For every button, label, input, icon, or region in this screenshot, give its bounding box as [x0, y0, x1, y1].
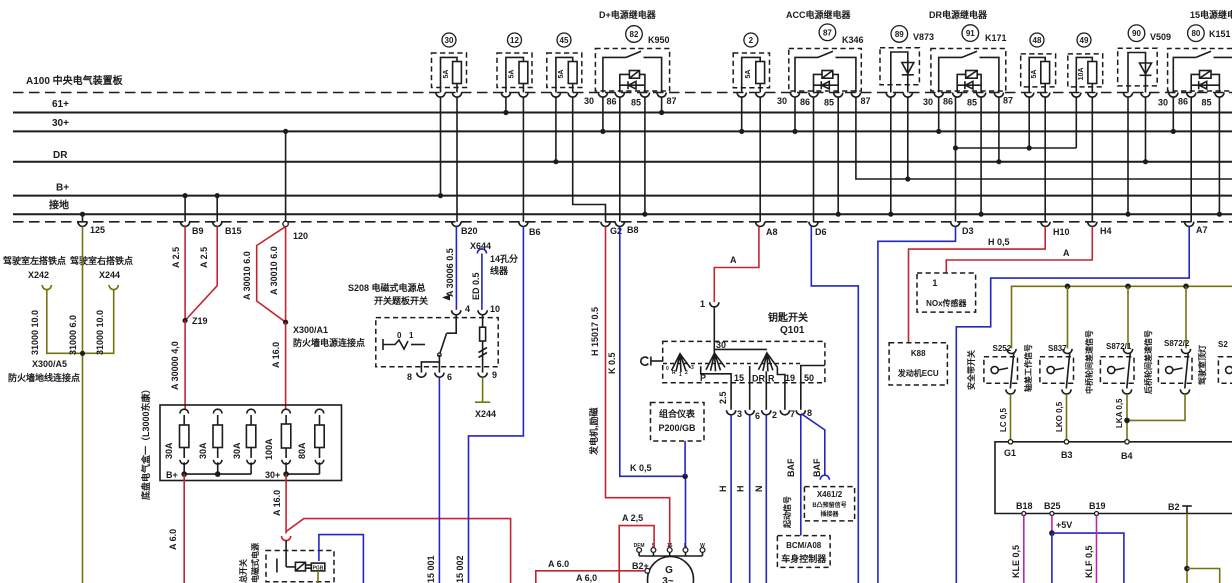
wire bus B+ [13, 195, 1232, 197]
svg-text:6: 6 [447, 372, 452, 382]
node dot K151-30/30+ [1171, 129, 1176, 134]
svg-text:2: 2 [749, 36, 754, 45]
wire B25 blue jog right down [1052, 533, 1124, 583]
svg-text:B25: B25 [1044, 501, 1061, 511]
component S208 board switch [376, 304, 500, 382]
node dot K171-86/aux [953, 145, 958, 150]
svg-text:5A: 5A [443, 70, 450, 79]
node dot B+ [181, 471, 187, 477]
fuse 100A [282, 409, 291, 413]
svg-text:电磁式电源: 电磁式电源 [250, 543, 260, 583]
wire pin4 into box [447, 315, 457, 333]
svg-text:K171: K171 [985, 33, 1007, 43]
component instrument cluster P200/GB [651, 403, 705, 442]
rotor fan left [672, 354, 691, 372]
svg-text:H: H [718, 486, 728, 493]
terminal 15 [667, 548, 672, 553]
svg-text:2: 2 [685, 370, 688, 376]
wire dashed bus top A100 [13, 92, 1232, 94]
wire X644 blue down to S208 pin10 [481, 254, 483, 310]
wire pin8 link [421, 362, 439, 373]
wire K346-85 to ground [837, 97, 839, 215]
wire K950-87 to 61+ [661, 97, 663, 113]
wire bus 61+ [13, 112, 1232, 114]
node dot X300/A5 junction [80, 351, 85, 356]
svg-text:K 0,5: K 0,5 [630, 463, 652, 473]
wire F30-left to B+ [440, 97, 442, 196]
svg-text:总开关: 总开关 [238, 559, 248, 583]
node keyswitch pin1 cup [710, 302, 719, 307]
svg-text:K151: K151 [1209, 29, 1231, 39]
wire pivot to pin6 [438, 355, 440, 373]
svg-text:起动信号: 起动信号 [782, 496, 792, 529]
svg-text:N: N [754, 486, 764, 493]
wire pin1 into switch [713, 307, 715, 353]
fuse F30 5A [432, 33, 467, 97]
svg-text:DR: DR [752, 374, 765, 384]
wire terminal B15 stub [216, 196, 218, 222]
svg-text:底盘电气盒一（L3000东康）: 底盘电气盒一（L3000东康） [140, 384, 151, 500]
wire B25 blue down [1051, 533, 1053, 583]
fuse F49 10A [1068, 33, 1103, 97]
svg-text:X242: X242 [28, 270, 49, 280]
svg-text:LKA 0,5: LKA 0,5 [1115, 398, 1124, 428]
svg-text:6: 6 [755, 411, 760, 421]
svg-text:30: 30 [1158, 98, 1168, 108]
wire B25 magenta stub [1051, 516, 1053, 534]
svg-text:接地: 接地 [49, 199, 69, 212]
wire terminal 120 stub [285, 131, 287, 221]
svg-text:BAF: BAF [812, 458, 822, 477]
svg-text:BCM/A08: BCM/A08 [786, 541, 822, 550]
svg-text:8: 8 [807, 408, 812, 418]
svg-text:82: 82 [630, 30, 639, 39]
svg-text:30: 30 [445, 36, 454, 45]
svg-text:15 002: 15 002 [455, 555, 465, 583]
wire K171-87 to DR [998, 97, 1000, 162]
node terminal B15 cup [213, 222, 222, 227]
svg-text:B2+: B2+ [632, 561, 649, 571]
wire 125 olive down [82, 226, 84, 583]
wire bus ground [13, 213, 1232, 215]
wire B2 olive branch right [1187, 569, 1220, 583]
wire coil lead [286, 566, 295, 568]
wire B6 blue down jog 15002 [469, 226, 524, 583]
node dot V873R/aux [905, 176, 910, 181]
svg-text:LC 0,5: LC 0,5 [999, 407, 1008, 432]
svg-text:5A: 5A [1031, 70, 1038, 79]
svg-text:30A: 30A [164, 442, 174, 459]
svg-text:1: 1 [932, 278, 937, 288]
wire F45-right jog to terminal G2 [573, 97, 606, 222]
svg-text:D+电源继电器: D+电源继电器 [599, 9, 657, 20]
node dot +5V junction [1049, 530, 1055, 536]
svg-text:100A: 100A [264, 438, 274, 460]
node dot K950-85/gnd [642, 212, 647, 217]
node terminal A8 cup [756, 222, 765, 227]
wire F30-right to terminal B20 [456, 97, 458, 222]
svg-text:R: R [672, 370, 676, 376]
svg-text:5A: 5A [508, 70, 515, 79]
component K88 engine ECU box [889, 343, 947, 385]
svg-text:8: 8 [407, 372, 412, 382]
wire A7 blue down double jog [956, 226, 1189, 583]
node dot 120/30+ [283, 129, 288, 134]
component generator G [632, 543, 705, 583]
svg-text:A: A [1063, 248, 1070, 258]
node dot S872 join [1124, 418, 1130, 424]
terminal L [683, 548, 688, 553]
svg-text:B2: B2 [1168, 502, 1180, 512]
svg-text:31000 10.0: 31000 10.0 [30, 310, 40, 355]
svg-text:A 30000 4,0: A 30000 4,0 [170, 341, 180, 390]
wire master switch pin [285, 541, 287, 567]
svg-text:K346: K346 [842, 35, 864, 45]
wire cup8 blue diagonal to X461/2 [801, 414, 825, 476]
svg-text:H10: H10 [1053, 227, 1070, 237]
rotor fan middle [706, 353, 725, 371]
svg-text:87: 87 [823, 28, 832, 37]
svg-text:B+: B+ [166, 470, 178, 480]
fuse F12 5A [497, 33, 532, 97]
rotor fan right [758, 353, 777, 371]
svg-text:B9: B9 [192, 226, 204, 236]
wire K346-86 to terminal D6 [813, 97, 815, 222]
wire olive drop S837 [1067, 286, 1069, 348]
node dot 30+ [283, 471, 289, 477]
svg-text:H: H [736, 486, 746, 493]
fuse 30A #2 [213, 409, 222, 413]
relay K171 DR [923, 25, 1013, 108]
svg-text:7: 7 [790, 409, 795, 419]
svg-text:H 0,5: H 0,5 [988, 237, 1010, 247]
svg-text:S2: S2 [1218, 340, 1228, 349]
wire terminal B9 stub [184, 196, 186, 222]
node terminal H4 cup [1088, 222, 1097, 227]
svg-text:W: W [700, 543, 705, 549]
fuse 30A #1 [180, 409, 189, 413]
svg-text:87: 87 [667, 96, 677, 106]
svg-text:ED 0.5: ED 0.5 [471, 272, 481, 300]
node X244 ground cup [109, 285, 118, 290]
svg-text:V873: V873 [913, 32, 934, 42]
svg-text:K 0.5: K 0.5 [607, 352, 617, 374]
fuse 80A [315, 409, 324, 413]
node terminal D6 cup [809, 222, 818, 227]
svg-text:4: 4 [465, 304, 470, 314]
node ks cup 8 [796, 410, 805, 415]
svg-text:A 30010 6.0: A 30010 6.0 [269, 246, 279, 295]
wire K151-30 to 30+ [1172, 97, 1174, 132]
node dot olive bus S872/2 [1183, 284, 1189, 290]
link [306, 564, 312, 566]
svg-text:开关题板开关: 开关题板开关 [374, 295, 428, 306]
wire A8 red to keyswitch pin1 [714, 226, 759, 302]
wire 30+ red down to master switch [285, 474, 287, 533]
component key switch Q101 [641, 307, 825, 410]
svg-text:A: A [730, 255, 737, 265]
svg-text:X461/2: X461/2 [817, 490, 843, 499]
fuse F2 5A [733, 33, 769, 97]
svg-text:B8: B8 [627, 225, 639, 235]
node dot B15/B+ [215, 193, 220, 198]
svg-text:钥匙开关: 钥匙开关 [768, 311, 808, 324]
wire F49-left to aux rail [1075, 97, 1077, 149]
wire F2-left to 30+ [741, 97, 743, 132]
node dot olive bus S837 [1065, 284, 1071, 290]
node dot fuse2 bottom [215, 471, 221, 477]
wire cluster blue stub [684, 441, 686, 476]
wire cup8 blue to BCM [800, 415, 802, 536]
svg-text:A 2.5: A 2.5 [171, 247, 181, 268]
svg-text:S208 电磁式电源总: S208 电磁式电源总 [348, 282, 426, 293]
component vehicle ECU box [995, 440, 1232, 516]
component chassis fuse box [140, 384, 342, 500]
svg-text:DR电源继电器: DR电源继电器 [929, 9, 988, 20]
wire S872/2 olive jog to B4 wire [1127, 394, 1185, 421]
svg-text:50: 50 [804, 373, 814, 383]
svg-text:80A: 80A [297, 442, 307, 459]
svg-text:KLE 0,5: KLE 0,5 [1011, 545, 1021, 578]
svg-text:15: 15 [734, 373, 744, 383]
diode module V509 [1118, 25, 1171, 97]
component switch S252 seat belt [966, 344, 1018, 442]
svg-text:B3: B3 [1061, 450, 1073, 460]
svg-text:驾驶室左搭铁点: 驾驶室左搭铁点 [3, 255, 66, 266]
wire olive drop S872/1 [1127, 286, 1129, 348]
svg-text:87: 87 [861, 96, 871, 106]
wire K346-30 to 30+ [794, 97, 796, 132]
wire 120 red straight branch [285, 227, 287, 323]
svg-text:30A: 30A [198, 442, 208, 459]
wire bus 30+ [13, 130, 1232, 132]
svg-text:V509: V509 [1150, 32, 1171, 42]
wire olive switch bus [1012, 286, 1232, 348]
wire stub to cup7 [777, 367, 785, 410]
relay K950 D+ [584, 26, 677, 108]
node pin4 cup [452, 310, 461, 315]
svg-text:G1: G1 [1004, 448, 1016, 458]
svg-text:ACC电源继电器: ACC电源继电器 [786, 9, 851, 20]
node pin9 cup [478, 373, 487, 378]
wire relay aux rail y147.5 K171-86 to F49 [956, 147, 1077, 149]
wire K171-85 to ground [980, 97, 982, 215]
svg-text:B凸预留信号: B凸预留信号 [812, 501, 846, 509]
label arrow to S208 [442, 295, 450, 301]
node pin8 cup [417, 373, 426, 378]
wire B9 red down to Z19 [184, 226, 186, 320]
node dot K950-30/30+ [600, 129, 605, 134]
svg-text:12: 12 [510, 36, 519, 45]
svg-text:5A: 5A [558, 70, 565, 79]
node X242 ground cup [42, 285, 51, 290]
wire F12-right to terminal B6 [522, 97, 524, 222]
wire F45-left to DR [555, 97, 557, 162]
svg-text:D3: D3 [962, 226, 974, 236]
node dot X300/A1 junction [283, 320, 288, 325]
svg-text:车身控制器: 车身控制器 [781, 553, 827, 564]
wire F49-right to terminal H4 [1091, 97, 1093, 222]
node dot B2 branch [1184, 566, 1190, 572]
svg-text:120: 120 [293, 231, 308, 241]
wire F2-right to terminal A8 [759, 97, 761, 222]
wire B2 olive down [1186, 514, 1188, 583]
terminal S [651, 548, 656, 553]
wire stub to cup3 [701, 366, 731, 410]
pin B19 [1095, 512, 1099, 516]
svg-text:2.5: 2.5 [718, 391, 728, 404]
terminal DFM [637, 548, 642, 553]
wire B20 blue down to S208 pin4 [455, 226, 457, 309]
svg-text:S252: S252 [993, 344, 1012, 353]
svg-text:中桥轮间差速信号: 中桥轮间差速信号 [1084, 330, 1094, 394]
svg-text:B6: B6 [529, 227, 541, 237]
wire B19 magenta down KLF [1096, 516, 1098, 583]
svg-text:3~: 3~ [662, 576, 674, 583]
wire terminal 125 stub [82, 214, 84, 222]
svg-text:30+: 30+ [265, 470, 280, 480]
svg-text:X244: X244 [99, 270, 120, 280]
svg-text:B18: B18 [1016, 501, 1033, 511]
node dot olive bus S872/1 [1125, 284, 1131, 290]
svg-text:86: 86 [607, 97, 617, 107]
pin B3 [1064, 440, 1068, 444]
svg-text:31000 10.0: 31000 10.0 [95, 310, 105, 355]
svg-text:B+: B+ [56, 183, 69, 194]
relay K151 15 (partially cut at right edge) [1158, 25, 1232, 108]
svg-text:85: 85 [967, 98, 977, 108]
node dot 125/gnd [80, 212, 85, 217]
svg-text:0: 0 [666, 366, 669, 372]
svg-text:19: 19 [785, 373, 795, 383]
svg-text:89: 89 [895, 30, 904, 39]
switch lever [439, 333, 446, 355]
svg-text:9: 9 [492, 370, 497, 380]
wire V509-right to DR [1145, 97, 1147, 162]
svg-text:X300/A1: X300/A1 [293, 325, 328, 335]
wire K171-30 to 30+ [938, 97, 940, 132]
wire K151-86 to terminal A7 [1190, 97, 1192, 222]
component S205 master switch box [266, 541, 334, 582]
node terminal H10 cup [1041, 222, 1050, 227]
wire F12-left to 61+ [505, 97, 507, 113]
svg-text:85: 85 [1202, 98, 1212, 108]
node terminal B6 cup [519, 222, 528, 227]
svg-text:30: 30 [716, 340, 726, 350]
svg-text:DFM: DFM [634, 543, 645, 549]
svg-text:3: 3 [691, 365, 694, 371]
wire H4 red to NOx sensor [946, 226, 1092, 273]
svg-text:H4: H4 [1100, 226, 1112, 236]
node dot B9/B+ [183, 193, 188, 198]
svg-text:A 2.5: A 2.5 [199, 247, 209, 268]
svg-text:B20: B20 [461, 226, 478, 236]
svg-text:86: 86 [800, 97, 810, 107]
wire F48-left to aux rail [1028, 97, 1030, 149]
node X244 ground bar [475, 401, 490, 403]
wire V509-left to ground [1127, 97, 1129, 215]
svg-text:61+: 61+ [52, 99, 69, 110]
wire cup2 blue down (N) [765, 415, 767, 583]
wire dashed bus bottom [13, 221, 1232, 223]
pin G1 [1008, 440, 1012, 444]
node terminal B9 cup [181, 222, 190, 227]
pin B25 [1050, 512, 1054, 516]
svg-text:14孔分: 14孔分 [490, 253, 518, 264]
node terminal G2 cup [601, 222, 610, 227]
pin B18 [1022, 512, 1026, 516]
wire B8 blue to generator L [620, 226, 686, 547]
svg-text:30+: 30+ [52, 118, 69, 129]
svg-text:A 30006 0.5: A 30006 0.5 [445, 248, 455, 297]
svg-text:80: 80 [1191, 29, 1200, 38]
svg-text:A 16.0: A 16.0 [272, 490, 282, 516]
component switch 5 partial at right edge [1197, 340, 1232, 386]
svg-text:85: 85 [824, 97, 834, 107]
svg-text:10A: 10A [1078, 68, 1085, 81]
node terminal D3 cup [951, 222, 960, 227]
svg-text:L: L [684, 543, 687, 549]
terminal B2+ [645, 568, 650, 573]
svg-text:A 6.0: A 6.0 [168, 529, 178, 550]
node master switch cup [282, 536, 291, 541]
node dot V873L/gnd [888, 212, 893, 217]
svg-text:+5V: +5V [1056, 520, 1072, 530]
svg-text:防火墙地线连接点: 防火墙地线连接点 [8, 372, 80, 383]
wire H10 red to K88 [909, 226, 1046, 342]
svg-text:插接器: 插接器 [820, 510, 839, 518]
component switch S872/2 rear axle diff lock [1124, 330, 1192, 423]
svg-text:NOx传感器: NOx传感器 [926, 298, 967, 308]
PGB block [311, 563, 325, 571]
svg-text:49: 49 [1080, 36, 1089, 45]
svg-text:A 30010 6.0: A 30010 6.0 [242, 251, 252, 300]
svg-text:PGB: PGB [313, 565, 324, 571]
indicator marks [479, 348, 488, 353]
wire V873-right to aux rail [907, 97, 909, 180]
wire K171-86 down to terminal D3 [955, 97, 957, 222]
svg-text:45: 45 [560, 36, 569, 45]
svg-text:30: 30 [923, 97, 933, 107]
wire cup3 blue down (H) [730, 415, 732, 583]
wire pin9 olive to X244 ground [482, 377, 484, 402]
svg-text:15 001: 15 001 [426, 555, 436, 583]
svg-text:轴差工作信号: 轴差工作信号 [1023, 344, 1033, 392]
svg-text:H 15017 0.5: H 15017 0.5 [590, 307, 600, 356]
wire blue from master switch [319, 535, 364, 583]
svg-text:B15: B15 [225, 226, 242, 236]
wire F48-right to terminal H10 [1044, 97, 1046, 222]
wire bus DR [13, 161, 1232, 163]
wire B18 magenta down KLE [1023, 516, 1025, 583]
svg-text:A 16.0: A 16.0 [271, 342, 281, 368]
generator terminal bar [639, 555, 702, 557]
key symbol [641, 357, 648, 365]
svg-text:15: 15 [667, 543, 673, 549]
node pin6 cup [435, 373, 444, 378]
svg-text:A 6.0: A 6.0 [548, 559, 569, 569]
svg-text:R: R [768, 374, 775, 384]
node dot Z19 [183, 318, 188, 323]
svg-text:线器: 线器 [490, 265, 509, 276]
node dot V509R/DR [1143, 159, 1148, 164]
svg-text:安全带开关: 安全带开关 [966, 350, 976, 390]
wire 120 red left loop branch [257, 227, 286, 323]
svg-text:A7: A7 [1196, 225, 1208, 235]
svg-text:48: 48 [1033, 36, 1042, 45]
component X461/2 connector box [804, 487, 854, 521]
svg-text:1: 1 [409, 331, 414, 340]
